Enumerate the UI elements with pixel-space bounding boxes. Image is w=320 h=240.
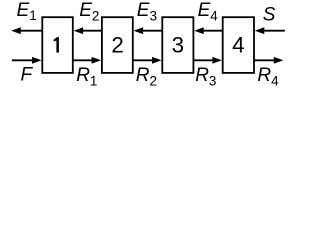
wire S (right edge into block 4, arrow left) xyxy=(264,30,285,32)
wire R1 (block 1 to block 2, arrow right) xyxy=(73,59,93,61)
svg-text:3: 3 xyxy=(172,33,184,58)
svg-text:F: F xyxy=(21,65,34,86)
svg-text:S: S xyxy=(263,4,276,25)
wire E1 (block 1 to left edge, arrow left) xyxy=(21,30,43,32)
block 2 xyxy=(102,17,133,73)
wire E4 (block 4 to block 3, arrow left) xyxy=(203,30,223,32)
wire R4 (block 4 to right edge, arrow right) xyxy=(254,59,275,61)
block 3 xyxy=(162,17,193,73)
block 4 xyxy=(223,17,254,73)
wire E2 (block 2 to block 1, arrow left) xyxy=(82,30,102,32)
wire R3 (block 3 to block 4, arrow right) xyxy=(193,59,213,61)
svg-text:4: 4 xyxy=(232,33,244,58)
wire E3 (block 3 to block 2, arrow left) xyxy=(142,30,162,32)
wire R2 (block 2 to block 3, arrow right) xyxy=(133,59,153,61)
svg-text:2: 2 xyxy=(111,33,123,58)
block 1 label "1" xyxy=(54,37,59,53)
block 1 xyxy=(42,17,73,73)
wire F (left edge into block 1, arrow right) xyxy=(12,59,33,61)
